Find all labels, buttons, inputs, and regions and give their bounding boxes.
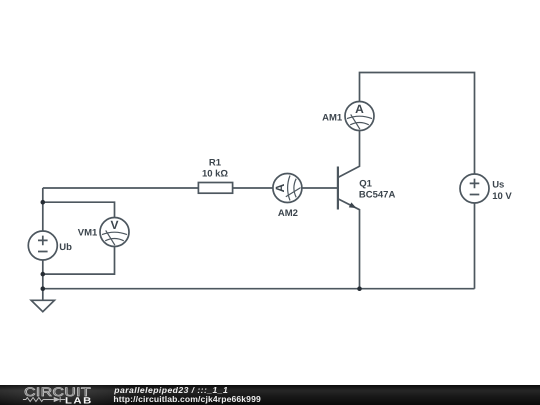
wire: collector to AM1 [338, 116, 360, 178]
wire: VM1 bottom branch [43, 232, 115, 274]
svg-text:10 V: 10 V [492, 191, 512, 202]
voltage source Us [460, 174, 489, 203]
wire: left vertical rail Ub branch down to ground [42, 188, 44, 300]
svg-text:10 kΩ: 10 kΩ [202, 169, 228, 180]
svg-text:A: A [273, 183, 287, 192]
svg-text:VM1: VM1 [78, 227, 98, 238]
svg-text:BC547A: BC547A [359, 190, 396, 201]
resistor R1 [198, 183, 232, 194]
svg-text:Us: Us [492, 179, 504, 190]
wire: emitter down to bottom rail [338, 199, 360, 289]
svg-text:Q1: Q1 [359, 178, 372, 189]
junction: left rail / bottom ground rail [41, 286, 46, 291]
CircuitLab logo [22, 385, 97, 405]
junction: left rail / VM1 top branch [41, 200, 46, 205]
svg-text:Ub: Ub [59, 242, 72, 253]
svg-text:V: V [110, 218, 118, 232]
transistor Q1 base bar [337, 167, 339, 210]
resistor zigzag + diode glyph [23, 397, 65, 402]
svg-text:A: A [355, 102, 364, 116]
svg-text:LAB: LAB [65, 395, 93, 405]
svg-text:AM1: AM1 [322, 112, 343, 123]
wire: base wire node from Ub+ to Q1 base [43, 187, 338, 189]
ammeter AM1 [345, 102, 374, 131]
svg-text:R1: R1 [209, 157, 222, 168]
wire: bottom ground rail [43, 288, 475, 290]
wire: AM1 top to top rail to Us right rail [360, 73, 475, 289]
footer bar [0, 385, 540, 405]
wire: VM1 top branch [43, 202, 115, 232]
transistor Q1 emitter arrow [349, 202, 357, 208]
ground [31, 300, 54, 311]
svg-text:AM2: AM2 [278, 208, 298, 219]
voltmeter VM1 [100, 218, 129, 247]
voltage source Ub [28, 231, 57, 260]
junction: emitter / bottom ground rail [357, 286, 362, 291]
junction: left rail / VM1 bottom branch [41, 272, 46, 277]
footer text [113, 385, 261, 404]
ammeter AM2 (rotated 90) [273, 174, 302, 203]
